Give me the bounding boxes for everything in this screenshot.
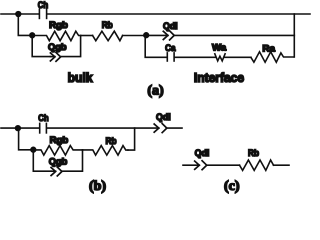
svg-text:Qdl: Qdl [163, 21, 178, 32]
wire out of Qdl (a) [174, 34, 294, 36]
wire right vertical joining rails (a) [293, 14, 295, 57]
resistor Ra (a) [251, 52, 294, 62]
wire Rb up to top rail (b) [128, 128, 135, 150]
svg-text:Qgb: Qgb [49, 156, 68, 167]
wire qgb loop right (b) [62, 150, 83, 171]
wire right terminal (c) [274, 164, 290, 166]
wire top right (a) [47, 13, 310, 15]
resistor Rgb (a) [32, 31, 80, 41]
svg-text:Rb: Rb [102, 20, 113, 31]
svg-text:Interface: Interface [194, 70, 244, 85]
svg-text:Rb: Rb [248, 148, 259, 159]
node dot left (a) [15, 11, 21, 17]
wire from left node down to middle rail (a) [18, 14, 32, 35]
svg-text:Ra: Ra [262, 44, 275, 55]
svg-text:Ch: Ch [38, 0, 49, 11]
wire top to Qdl (b) [47, 127, 159, 129]
resistor Rgb (b) [33, 146, 82, 156]
svg-text:Qdl: Qdl [195, 148, 210, 159]
resistor Rb (c) [240, 160, 274, 170]
wire into Qdl (a) [146, 34, 168, 36]
svg-text:Qdl: Qdl [156, 112, 171, 123]
svg-text:Rgb: Rgb [50, 135, 69, 146]
wire out of Qdl (c) [207, 164, 240, 166]
svg-text:Rgb: Rgb [49, 20, 68, 31]
svg-text:(a): (a) [147, 84, 164, 99]
wire out of Qdl (b) [167, 127, 182, 129]
capacitor Ch (a) [39, 9, 46, 18]
svg-text:Qgb: Qgb [48, 42, 67, 53]
node dot left (b) [15, 125, 21, 131]
CPE Qdl (c) [195, 161, 240, 170]
chevron 1 of Qgb [50, 53, 55, 61]
CPE Qdl (b) [154, 124, 182, 133]
wire left node down to middle rail (b) [19, 128, 34, 150]
wire Wa to Ra (a) [225, 56, 251, 58]
wire Ca to Wa (a) [175, 56, 216, 58]
wire Rb to node (a) [123, 35, 147, 37]
Warburg Wa (a) [215, 54, 225, 61]
node dot right (a) [143, 32, 149, 38]
wire Rgb to Rb (a) [81, 35, 93, 37]
capacitor Ch (b) [40, 123, 47, 132]
svg-text:Ch: Ch [38, 113, 49, 124]
resistor Rb (b) [83, 146, 129, 156]
wire qgb loop left/bottom (b) [33, 150, 51, 171]
capacitor Ca (a) [167, 53, 174, 61]
svg-text:Wa: Wa [212, 43, 227, 54]
CPE Qgb (a): loop below Rgb [32, 35, 80, 61]
chevron 1 of Qgb (b) [51, 168, 56, 176]
node dot middle (a) [29, 32, 35, 38]
chevron 2 of Qgb (b) [57, 167, 62, 176]
svg-text:Ca: Ca [165, 43, 176, 54]
chevron 1 of Qdl (b) [154, 124, 159, 132]
chevron 2 of Qdl (b) [162, 124, 167, 133]
chevron 1 of Qdl (c) [195, 161, 200, 169]
wire left terminal (a) [1, 13, 39, 15]
wire qgb loop right (a) [61, 36, 81, 57]
chevron 2 of Qdl (a) [170, 31, 175, 40]
node dot middle (b) [30, 147, 36, 153]
chevron 2 of Qdl (c) [202, 161, 207, 170]
CPE Qgb (b): loop below Rgb [33, 150, 82, 176]
CPE Qdl (a) [146, 31, 294, 40]
chevron 1 of Qdl (a) [163, 31, 168, 39]
wire left terminal (c) [183, 164, 199, 166]
svg-text:(c): (c) [224, 179, 240, 194]
chevron 2 of Qgb [56, 53, 61, 62]
wire left terminal (b) [1, 127, 39, 129]
wire node down to interface rail (a) [145, 35, 166, 57]
wire qgb loop left/bottom (a) [32, 35, 50, 56]
svg-text:(b): (b) [89, 179, 106, 194]
svg-text:bulk: bulk [68, 70, 94, 85]
svg-text:Rb: Rb [106, 136, 117, 147]
resistor Rb (a) [93, 31, 123, 41]
